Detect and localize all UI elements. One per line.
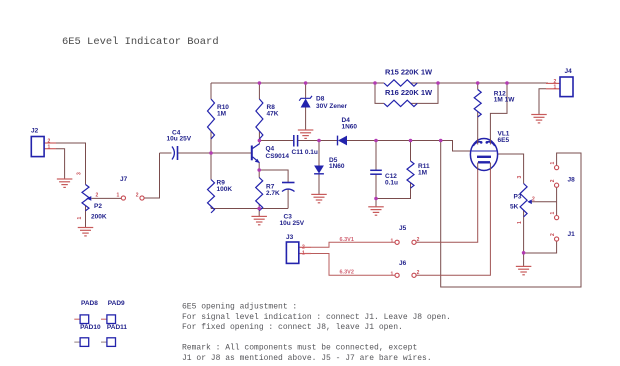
wire J5 pin 2 to tube heater xyxy=(416,164,478,242)
svg-text:1: 1 xyxy=(77,217,83,220)
wire heater line J3 pin2 to J5 xyxy=(299,246,311,248)
wire rail to tube target anode xyxy=(490,83,507,144)
svg-text:1M: 1M xyxy=(418,170,427,177)
svg-text:1M 1W: 1M 1W xyxy=(494,97,515,104)
svg-text:1: 1 xyxy=(554,84,557,90)
wire input coupling line xyxy=(160,152,172,154)
wire heater line J3 pin1 to J6 xyxy=(299,253,311,255)
svg-text:C11 0.1u: C11 0.1u xyxy=(292,149,318,156)
wire top power rail left segment xyxy=(211,82,384,84)
connector J4 xyxy=(560,77,573,97)
svg-text:1M: 1M xyxy=(217,111,226,118)
diode D4 xyxy=(337,136,339,146)
svg-text:J2: J2 xyxy=(31,128,39,135)
svg-text:6E5 Level Indicator Board: 6E5 Level Indicator Board xyxy=(62,36,219,48)
wire D5 branch xyxy=(318,141,320,166)
wire bottom emitter line xyxy=(211,208,288,210)
svg-text:J6: J6 xyxy=(399,260,407,267)
svg-text:PAD9: PAD9 xyxy=(108,300,125,307)
wire D8 branch from rail xyxy=(305,83,307,98)
wire collector node to C11 xyxy=(259,140,293,142)
resistor R10 xyxy=(208,99,215,139)
svg-text:6E5: 6E5 xyxy=(498,137,510,144)
wire tube cathode to P3 xyxy=(494,154,524,184)
svg-text:1N60: 1N60 xyxy=(342,124,358,131)
svg-text:PAD11: PAD11 xyxy=(107,324,127,331)
wire D8 anode to ground xyxy=(305,108,307,130)
wire R7 bottom lead xyxy=(258,204,260,208)
diode D8 zener xyxy=(301,99,311,108)
svg-text:2: 2 xyxy=(417,270,420,276)
wire R12 top lead xyxy=(477,83,479,90)
svg-text:J5: J5 xyxy=(399,225,407,232)
svg-text:J8: J8 xyxy=(568,177,576,184)
svg-text:D8: D8 xyxy=(316,96,325,103)
svg-text:Q4: Q4 xyxy=(266,146,275,153)
svg-text:J7: J7 xyxy=(120,176,128,183)
svg-text:10u 25V: 10u 25V xyxy=(167,136,192,143)
svg-text:5K: 5K xyxy=(510,204,519,211)
wire R12 bottom lead into tube xyxy=(477,112,479,144)
potentiometer P3 xyxy=(520,184,527,217)
svg-text:1: 1 xyxy=(302,250,305,256)
ground below J2 xyxy=(57,178,73,180)
wire rail to J4 pin 2 xyxy=(546,82,560,84)
wire emitter to C3 xyxy=(259,170,288,183)
wire D5 node to D4 cathode xyxy=(319,140,338,142)
wire J1 pin 1 stub xyxy=(556,202,558,216)
wire C12 bottom lead xyxy=(375,174,377,198)
wire top power rail right segment xyxy=(411,82,548,84)
svg-text:30V Zener: 30V Zener xyxy=(316,103,348,110)
wire grid feedback loop xyxy=(441,141,581,288)
resistor R7 xyxy=(256,178,263,211)
wire C4 to base node xyxy=(178,152,212,154)
wire R10 bottom lead to input node xyxy=(210,131,212,153)
svg-text:PAD8: PAD8 xyxy=(81,300,98,307)
wire R16 parallel loop right xyxy=(411,83,438,103)
wire J8 pin 2 stub xyxy=(556,187,558,201)
svg-text:1: 1 xyxy=(550,162,556,165)
resistor R16 xyxy=(384,100,417,106)
svg-text:J1 or J8 as mentioned above. J: J1 or J8 as mentioned above. J5 - J7 are… xyxy=(182,354,432,363)
ground below P2 xyxy=(78,227,94,229)
junction dots xyxy=(258,81,262,85)
wire R11 node to grid node xyxy=(411,140,441,142)
svg-text:J3: J3 xyxy=(286,234,294,241)
wire J7 pin 2 to C4 xyxy=(144,153,159,198)
svg-text:2: 2 xyxy=(96,193,99,199)
svg-text:3: 3 xyxy=(77,172,83,175)
svg-text:1: 1 xyxy=(391,272,394,278)
svg-text:6.3V1: 6.3V1 xyxy=(340,237,354,243)
tube VL1 6E5 magic eye xyxy=(470,139,497,171)
wire J4 pin 1 to ground xyxy=(546,88,560,90)
resistor R15 xyxy=(384,80,417,86)
wire C12 top lead xyxy=(375,141,377,171)
svg-text:2: 2 xyxy=(532,196,535,202)
diode D5 xyxy=(314,166,324,174)
ground below D8 xyxy=(298,129,314,131)
wire P2 bottom lead to ground xyxy=(85,206,87,228)
wire base node to Q4 base xyxy=(211,152,252,154)
svg-text:2: 2 xyxy=(550,233,556,236)
wire R9 bottom lead xyxy=(210,206,212,208)
wire Q4 collector lead xyxy=(258,141,260,144)
connector J3 xyxy=(286,242,298,263)
wire P2 wiper to J7 pin 1 xyxy=(91,197,121,199)
wire C12 ground stub xyxy=(375,199,377,207)
wire R7 top lead xyxy=(258,170,260,178)
capacitor C12 xyxy=(370,169,382,171)
svg-text:6E5 opening adjustment :: 6E5 opening adjustment : xyxy=(182,303,297,312)
wire P3 wiper to J8/J1 node xyxy=(531,201,557,203)
capacitor C4 xyxy=(172,147,174,160)
svg-text:2: 2 xyxy=(136,193,139,199)
wire tube top leads inside envelope xyxy=(477,139,479,145)
svg-text:10u 25V: 10u 25V xyxy=(280,220,305,227)
ground below J4 xyxy=(531,114,547,116)
svg-text:2.7K: 2.7K xyxy=(266,190,280,197)
ground below P3 xyxy=(516,265,532,267)
resistor R9 xyxy=(208,180,215,213)
transistor Q4 xyxy=(251,146,253,161)
svg-text:Remark : All components must b: Remark : All components must be connecte… xyxy=(182,344,417,353)
capacitor C3 xyxy=(282,182,295,184)
svg-text:P3: P3 xyxy=(514,194,522,201)
svg-text:1N60: 1N60 xyxy=(329,163,345,170)
wire R9 branch xyxy=(210,153,212,180)
svg-text:0.1u: 0.1u xyxy=(385,180,398,187)
svg-text:47K: 47K xyxy=(267,111,279,118)
svg-text:200K: 200K xyxy=(91,214,107,221)
wire R11 top lead xyxy=(410,141,412,162)
svg-text:1: 1 xyxy=(517,221,523,224)
svg-text:CS9014: CS9014 xyxy=(266,153,290,160)
wire J1 pin 2 stub xyxy=(524,241,557,253)
wire R11 bottom lead to C12 node xyxy=(376,183,411,199)
wire grid node jog into tube xyxy=(441,141,473,152)
connector J2 xyxy=(31,137,44,157)
ground below D5 xyxy=(311,193,327,195)
svg-text:R16 220K 1W: R16 220K 1W xyxy=(385,88,433,97)
wire J2 pin 2 to P2 top xyxy=(44,142,56,144)
svg-text:1: 1 xyxy=(391,239,394,245)
wire P3 ground stub xyxy=(523,253,525,266)
svg-text:6.3V2: 6.3V2 xyxy=(340,270,354,276)
wire R10 top lead xyxy=(210,83,212,99)
potentiometer P2 xyxy=(82,185,89,211)
svg-text:J1: J1 xyxy=(568,231,576,238)
wire C11 to D5 node xyxy=(298,140,319,142)
wire D5 anode to ground xyxy=(318,174,320,194)
svg-text:R15 220K 1W: R15 220K 1W xyxy=(385,68,433,77)
wire R8 top lead xyxy=(258,83,260,99)
svg-text:1: 1 xyxy=(117,193,120,199)
wire R16 parallel loop xyxy=(375,83,384,103)
resistor R8 xyxy=(256,99,263,139)
svg-text:2: 2 xyxy=(550,179,556,182)
resistor R12 xyxy=(474,90,481,118)
wire R8 bottom lead to collector node xyxy=(258,131,260,141)
svg-text:1: 1 xyxy=(48,144,51,150)
svg-text:1: 1 xyxy=(550,212,556,215)
wire C3 bottom lead xyxy=(287,190,289,209)
capacitor C11 xyxy=(293,135,295,147)
wire J6 pin 2 to tube heater xyxy=(416,164,490,275)
svg-text:PAD10: PAD10 xyxy=(80,324,101,331)
ground below C12 xyxy=(368,206,384,208)
svg-text:2: 2 xyxy=(417,237,420,243)
svg-text:P2: P2 xyxy=(94,203,102,210)
resistor R11 xyxy=(407,161,414,188)
wire C12 node to R11 node xyxy=(376,140,411,142)
svg-text:3: 3 xyxy=(517,176,523,179)
wire Q4 emitter lead xyxy=(258,163,260,171)
wire P3 bottom lead xyxy=(523,210,525,253)
svg-text:J4: J4 xyxy=(565,68,573,75)
wire D4 anode to C12 node xyxy=(347,140,376,142)
wire ground stub below R7 line xyxy=(258,209,260,217)
svg-text:For signal level indication :: For signal level indication : connect J1… xyxy=(182,313,451,322)
ground below R7/R9 line xyxy=(251,215,267,217)
svg-text:100K: 100K xyxy=(217,186,233,193)
svg-text:For fixed opening : connect J8: For fixed opening : connect J8, leave J1… xyxy=(182,323,403,332)
wire J2 pin 1 to ground xyxy=(44,148,56,150)
